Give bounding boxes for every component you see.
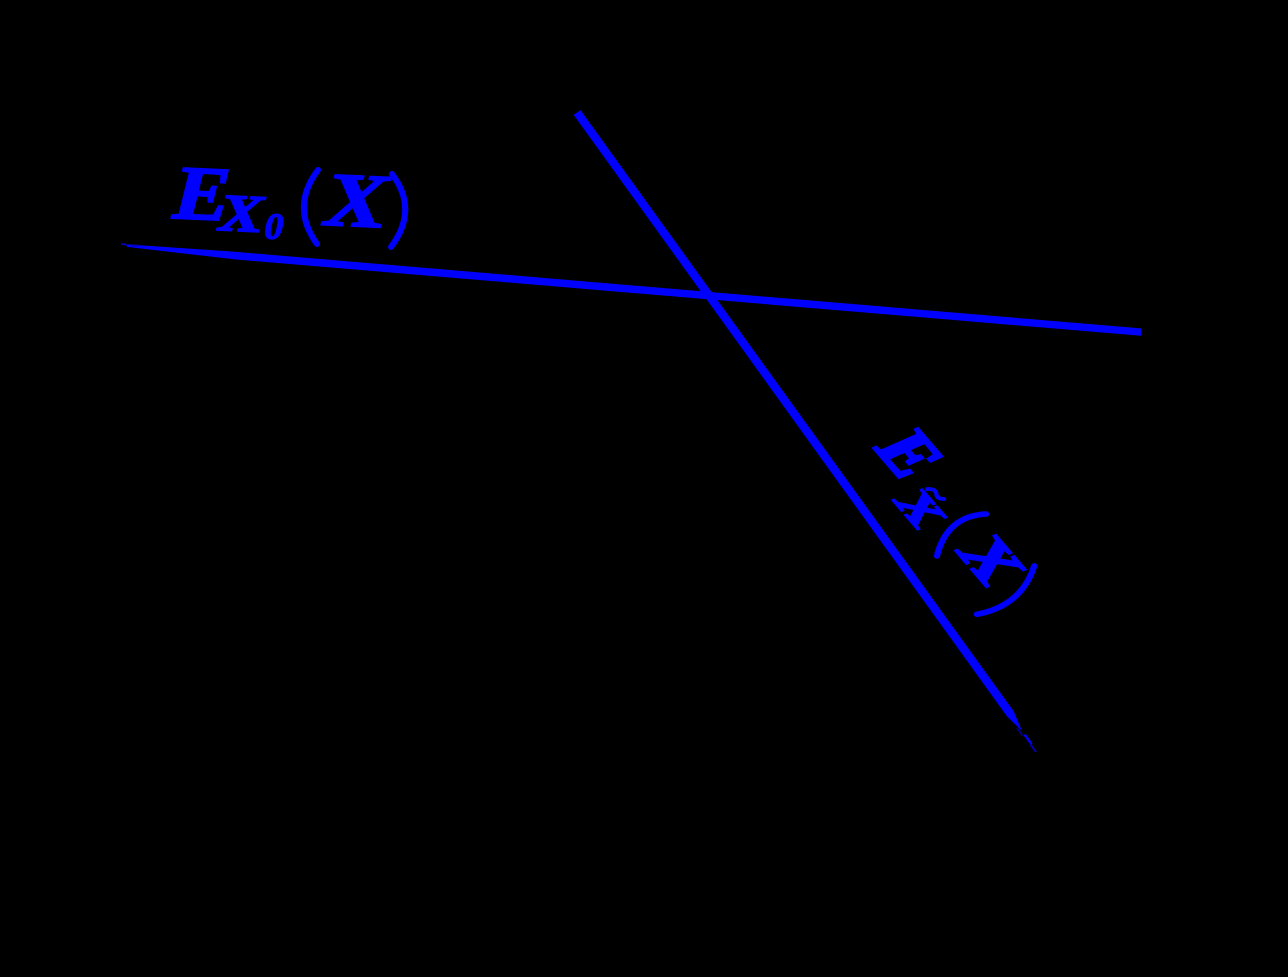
wire tangent line E_Xhat (steep blue line, tapered bottom tip) — [574, 110, 1036, 752]
svg-text:X: X — [216, 183, 267, 243]
svg-text:0: 0 — [264, 206, 284, 248]
wire tangent line E_X0 (shallow blue line, tapered left tip) — [121, 243, 1141, 336]
node label E_Xhat(X) — [848, 413, 1058, 619]
svg-text:X: X — [320, 156, 393, 245]
node label E_X0(X) — [170, 149, 408, 254]
